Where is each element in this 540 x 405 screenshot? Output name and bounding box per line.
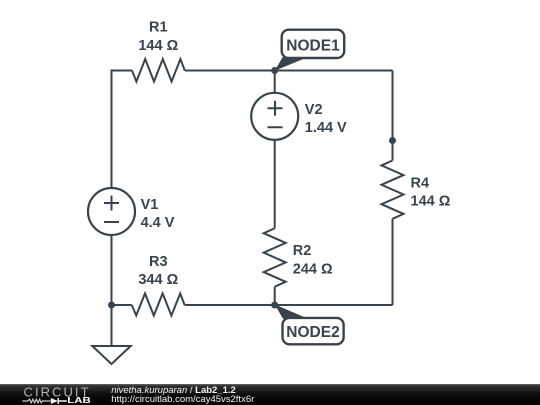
label R2 value (293, 243, 333, 277)
ground (92, 346, 130, 364)
footer bar (0, 384, 540, 405)
svg-text:V2: V2 (305, 102, 323, 118)
svg-text:344 Ω: 344 Ω (138, 272, 178, 288)
svg-text:R3: R3 (149, 254, 168, 270)
wire bottom-left stub (112, 304, 132, 306)
svg-text:4.4 V: 4.4 V (141, 215, 175, 231)
wire middle upper (274, 71, 276, 93)
resistor R4 (382, 161, 404, 219)
resistor R3 (132, 294, 185, 316)
resistor R2 (264, 228, 286, 286)
wire right lower (392, 219, 394, 305)
wire top-left corner (112, 71, 133, 189)
svg-text:144 Ω: 144 Ω (411, 194, 451, 210)
svg-text:V1: V1 (141, 197, 159, 213)
node junction dot ground (108, 302, 115, 309)
node NODE1 flag (275, 30, 345, 71)
wire top (R1 to right corner) (185, 70, 393, 72)
label R3 value (138, 254, 178, 288)
svg-text:http://circuitlab.com/cay45vs2: http://circuitlab.com/cay45vs2ftx6r (111, 394, 254, 405)
svg-text:244 Ω: 244 Ω (293, 261, 333, 277)
node NODE2 flag (275, 304, 344, 344)
svg-text:144 Ω: 144 Ω (138, 38, 178, 54)
svg-text:NODE1: NODE1 (286, 37, 340, 54)
ground stub wire (111, 305, 113, 346)
label V1 value (141, 197, 175, 231)
voltage source V2 (251, 93, 298, 140)
label V2 value (305, 102, 347, 136)
label R1 value (138, 20, 178, 54)
label R4 value (411, 175, 451, 209)
wire left lower (111, 235, 113, 305)
node junction dot right (389, 137, 396, 144)
svg-text:R2: R2 (293, 243, 312, 259)
svg-text:1.44 V: 1.44 V (305, 120, 347, 136)
svg-text:NODE2: NODE2 (286, 324, 339, 341)
voltage source V1 (88, 188, 135, 235)
node NODE2 junction dot (271, 302, 278, 309)
wire middle (V2 to R2) (274, 140, 276, 229)
wire right upper (392, 71, 394, 161)
svg-text:LAB: LAB (67, 396, 91, 405)
wire middle lower (274, 287, 276, 305)
logo diode (51, 398, 67, 404)
svg-text:R4: R4 (411, 175, 430, 191)
wire bottom (right corner to node) (185, 304, 393, 306)
node NODE1 junction dot (271, 67, 278, 74)
svg-text:R1: R1 (149, 20, 168, 36)
resistor R1 (132, 59, 185, 82)
logo resistor squiggle (22, 399, 50, 403)
